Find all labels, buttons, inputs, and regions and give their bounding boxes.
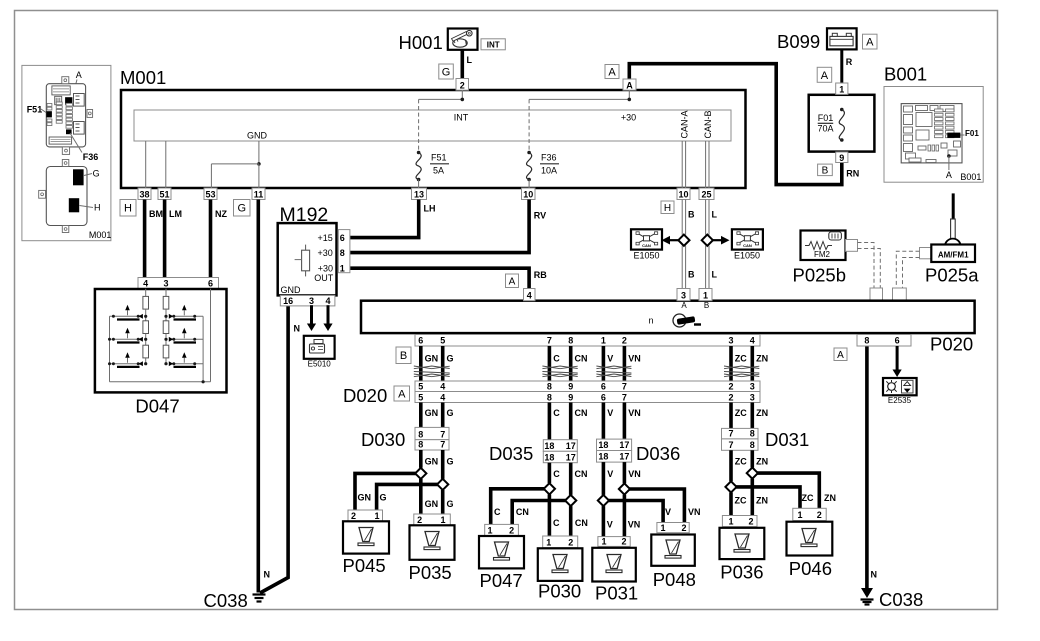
svg-text:ZN: ZN: [756, 354, 768, 364]
M001 internal node +30 from pin A: [529, 90, 636, 123]
svg-text:6: 6: [895, 336, 900, 346]
svg-text:3: 3: [163, 278, 168, 288]
svg-text:+30: +30: [318, 248, 333, 258]
svg-text:D036: D036: [636, 443, 680, 464]
svg-text:1: 1: [374, 511, 379, 521]
wire ZN junction to P036 pin 2: [752, 479, 768, 516]
F01 pin 9: [836, 152, 848, 163]
svg-text:AM/FM1: AM/FM1: [938, 250, 969, 259]
wire label B upper CAN-A: [688, 210, 695, 220]
svg-text:VN: VN: [628, 520, 641, 530]
svg-text:L: L: [712, 270, 718, 280]
svg-text:8: 8: [547, 393, 552, 403]
svg-text:ZC: ZC: [735, 496, 747, 506]
svg-text:P047: P047: [480, 570, 523, 591]
arrow to left E1050: [662, 236, 679, 245]
svg-text:A: A: [626, 81, 633, 91]
svg-text:B: B: [704, 301, 709, 310]
svg-text:A: A: [76, 70, 82, 80]
connector D035: [489, 440, 577, 464]
fusebox M001 inset illustration: [22, 65, 112, 240]
svg-text:B001: B001: [960, 172, 981, 182]
fuse F51 5A inside M001: [416, 99, 449, 188]
svg-text:1: 1: [440, 515, 445, 525]
ground C038 left: [204, 590, 266, 611]
node D047 connector strip: [138, 278, 219, 289]
svg-text:10: 10: [523, 190, 533, 200]
svg-text:4: 4: [143, 278, 148, 288]
svg-text:V: V: [607, 520, 613, 530]
connector D030: [361, 427, 449, 450]
M001 internal bus box: [134, 110, 731, 141]
svg-text:9: 9: [568, 382, 573, 392]
wire fuse F01 pin 9 to M001 pin A (RN): [629, 64, 842, 185]
connector stub of P025b: [846, 240, 858, 252]
svg-text:VN: VN: [628, 469, 641, 479]
wire C D035 to junction: [549, 463, 560, 484]
wire M001 pin38 to D047 pin4 (BM): [143, 200, 147, 278]
svg-text:F01: F01: [965, 129, 979, 138]
branch wire GN to P045 pin 2: [355, 473, 421, 510]
svg-text:2: 2: [622, 336, 627, 346]
connector stub on P020 for P025a: [893, 288, 907, 301]
connector stub on P020 for P025b: [870, 288, 883, 301]
svg-text:GN: GN: [358, 493, 372, 503]
svg-text:A: A: [398, 388, 406, 400]
svg-text:B001: B001: [884, 63, 927, 84]
junction diamond CN: [565, 495, 576, 506]
svg-text:P036: P036: [720, 562, 763, 583]
connector label A at P020 pin 4: [506, 274, 519, 288]
wire labels GN G at P045: [358, 493, 387, 503]
svg-text:2: 2: [728, 382, 733, 392]
svg-text:RN: RN: [846, 169, 859, 179]
svg-text:GN: GN: [425, 408, 439, 418]
branch wire CN to P047 pin 2: [512, 501, 571, 525]
svg-text:N: N: [264, 570, 271, 580]
M001 internal node INT from pin 2: [419, 90, 469, 123]
svg-text:1: 1: [340, 263, 345, 273]
svg-text:H: H: [664, 203, 671, 214]
svg-text:53: 53: [205, 190, 215, 200]
M001 internal wire to pin 38: [145, 141, 147, 188]
svg-text:GND: GND: [247, 131, 268, 141]
wire M001 pin10 to M192 pin8 (RV): [350, 200, 547, 253]
junction diamond GN: [415, 468, 426, 479]
connector D036: [597, 439, 681, 464]
node E1050 right: [732, 229, 763, 260]
svg-text:P025a: P025a: [925, 264, 979, 285]
svg-text:1: 1: [546, 537, 551, 547]
connector label B left of speaker strip: [396, 347, 411, 364]
junction diamond CAN-B: [702, 235, 713, 246]
fuse F01 70A node box: [809, 95, 875, 152]
M192 pin 4: [325, 296, 330, 306]
svg-text:4: 4: [440, 393, 445, 403]
P020 speaker-output pin strip 6 5 7 8 1 2 3 4: [415, 335, 760, 347]
wire pair C/CN D020 to D035: [549, 403, 587, 440]
svg-text:A: A: [681, 301, 687, 310]
svg-text:RB: RB: [534, 270, 547, 280]
svg-text:M001: M001: [89, 230, 112, 240]
svg-text:H001: H001: [399, 32, 443, 53]
arrow M192 pin4 to E5010: [323, 305, 332, 331]
svg-text:2: 2: [748, 517, 753, 527]
connector D031: [722, 428, 810, 450]
wire GN D030 to junction: [421, 450, 438, 468]
svg-text:9: 9: [839, 153, 844, 163]
wire labels ZC ZN at P046: [802, 493, 837, 503]
svg-text:L: L: [467, 55, 473, 65]
svg-text:7: 7: [728, 440, 733, 450]
wire pair ZC/ZN D020 to D031: [731, 403, 768, 429]
connector D020 row B: [415, 392, 760, 403]
svg-text:7: 7: [622, 393, 627, 403]
svg-text:GN: GN: [425, 354, 439, 364]
svg-text:R: R: [846, 57, 853, 67]
svg-text:A: A: [608, 66, 616, 78]
svg-text:1: 1: [487, 526, 492, 536]
svg-text:E2535: E2535: [888, 396, 912, 405]
svg-text:2: 2: [509, 526, 514, 536]
P020 pin 1 CAN-B: [699, 289, 712, 311]
wire G junction to P035 pin 1: [443, 490, 454, 514]
svg-text:4: 4: [325, 296, 330, 306]
svg-text:A: A: [866, 37, 874, 49]
svg-text:+30: +30: [318, 263, 333, 273]
svg-text:C: C: [553, 518, 560, 528]
svg-text:10: 10: [678, 190, 688, 200]
svg-text:H: H: [94, 203, 101, 213]
svg-text:OUT: OUT: [314, 273, 334, 283]
svg-text:A: A: [837, 350, 844, 361]
svg-text:P025b: P025b: [793, 264, 847, 285]
fuse F36 10A inside M001: [527, 99, 559, 188]
svg-text:C038: C038: [204, 590, 248, 611]
svg-text:3: 3: [681, 290, 686, 300]
svg-text:CN: CN: [575, 518, 588, 528]
branch wire V to P048 pin 1: [603, 501, 663, 523]
coax dashed link P025a to P020: [896, 251, 919, 288]
svg-text:C: C: [553, 469, 560, 479]
svg-text:C: C: [553, 354, 560, 364]
loudspeaker P031: [592, 537, 638, 604]
svg-text:17: 17: [619, 440, 629, 450]
svg-text:11: 11: [254, 190, 264, 200]
svg-text:ZN: ZN: [756, 457, 768, 467]
M001 pin 10 at x=521.5: [522, 188, 536, 200]
net CAN-B M001 pin25 to P020 pin 1: [706, 200, 709, 289]
svg-text:LH: LH: [424, 204, 436, 214]
svg-text:7: 7: [728, 429, 733, 439]
svg-text:3: 3: [309, 296, 314, 306]
svg-text:8: 8: [568, 336, 573, 346]
svg-text:CAN-A: CAN-A: [680, 110, 690, 138]
aerial amplifier FM2 P025b: [793, 231, 847, 286]
svg-text:D030: D030: [361, 429, 405, 450]
svg-text:1: 1: [797, 510, 802, 520]
svg-text:P030: P030: [538, 581, 581, 602]
svg-text:B: B: [400, 350, 407, 362]
svg-text:C: C: [494, 507, 501, 517]
svg-text:51: 51: [159, 190, 169, 200]
junction diamond ZC: [725, 481, 736, 492]
net CAN-B inside M001: [703, 110, 713, 188]
connector label G at M001 pin 2: [439, 64, 454, 79]
svg-text:V: V: [607, 354, 613, 364]
svg-text:1: 1: [660, 523, 665, 533]
wire battery B099 to fuse F01 pin 1 (R): [840, 49, 843, 83]
wire G D030 to junction: [443, 450, 454, 479]
svg-text:F51: F51: [431, 153, 447, 163]
wire labels BM LM NZ at M001 pins: [149, 209, 227, 219]
wire label L lower CAN-B: [712, 270, 718, 280]
junction diamond VN: [619, 483, 630, 494]
svg-text:F36: F36: [83, 152, 99, 162]
P020 pin 4: [524, 289, 536, 301]
svg-text:GN: GN: [425, 457, 439, 467]
svg-text:D031: D031: [765, 429, 809, 450]
svg-text:4: 4: [750, 336, 755, 346]
P020 microphone n symbol: [648, 314, 701, 327]
svg-text:CAN: CAN: [743, 243, 752, 248]
svg-text:6: 6: [418, 336, 423, 346]
wire pair V/VN P020 to D020: [596, 346, 640, 381]
wire pair C/CN P020 to D020: [542, 346, 587, 381]
svg-text:V: V: [607, 469, 613, 479]
svg-text:+15: +15: [318, 233, 333, 243]
svg-text:ZC: ZC: [735, 408, 747, 418]
svg-text:5: 5: [440, 336, 445, 346]
M001 pin 11 at x=252: [252, 188, 265, 200]
svg-text:LM: LM: [169, 209, 182, 219]
arrow M192 pin3 to E5010: [307, 305, 316, 331]
svg-text:38: 38: [139, 190, 149, 200]
M001 pin 53 at x=204: [204, 188, 217, 200]
svg-text:7: 7: [440, 429, 445, 439]
loudspeaker P047: [479, 524, 524, 591]
svg-text:6: 6: [208, 278, 213, 288]
svg-text:G: G: [447, 354, 454, 364]
svg-text:D035: D035: [489, 443, 533, 464]
M192 bottom pin strip: [280, 295, 335, 306]
svg-text:CN: CN: [516, 507, 529, 517]
M001 pin 38 at x=138: [138, 188, 151, 200]
svg-text:8: 8: [340, 248, 345, 258]
wire M192 pin1 to P020 pin4 (RB): [350, 268, 548, 288]
battery B099: [777, 28, 857, 52]
junction diamond G: [437, 479, 448, 490]
connector label H on CAN wires: [661, 201, 674, 214]
svg-text:G: G: [442, 66, 451, 78]
node E5010: [304, 336, 335, 369]
connector label A right of B099: [863, 34, 878, 49]
svg-text:7: 7: [622, 382, 627, 392]
fusebox B001 inset illustration: [884, 63, 983, 182]
svg-text:8: 8: [418, 440, 423, 450]
wire M001 pin53 to D047 pin6 (NZ): [209, 200, 213, 278]
svg-text:P048: P048: [653, 569, 696, 590]
connector label G below M001 pin 11: [234, 200, 251, 217]
wire label L on H001 wire: [467, 55, 473, 65]
wire CN D035 to junction: [571, 463, 588, 495]
wire V D036 to junction: [603, 462, 613, 495]
branch wire ZN to P046 pin 2: [752, 473, 819, 508]
label D020: [343, 385, 387, 406]
svg-text:INT: INT: [487, 41, 500, 50]
wire P020 pin8 to ground C038 (N): [867, 346, 877, 588]
wire label L upper CAN-B: [712, 210, 718, 220]
connector stub of P025a: [920, 248, 932, 259]
wire C junction to P030 pin 1: [549, 494, 560, 536]
svg-text:INT: INT: [454, 113, 469, 123]
P020 pin 3 CAN-A: [677, 289, 690, 311]
relay M192 box: [278, 204, 337, 295]
svg-text:A: A: [509, 276, 516, 287]
svg-text:H: H: [124, 203, 132, 215]
svg-text:5A: 5A: [433, 166, 444, 176]
wire ZC junction to P036 pin 1: [731, 493, 747, 516]
wire label R on battery wire: [846, 57, 853, 67]
wire VN junction to P031 pin 2: [624, 495, 640, 537]
svg-text:F51: F51: [27, 104, 43, 114]
svg-text:3: 3: [728, 336, 733, 346]
svg-text:5: 5: [418, 393, 423, 403]
svg-text:2: 2: [351, 511, 356, 521]
svg-text:18: 18: [598, 440, 608, 450]
svg-text:P045: P045: [343, 555, 386, 576]
wire V junction to P031 pin 1: [603, 506, 612, 536]
svg-text:70A: 70A: [817, 124, 833, 134]
wire M192 pin16 to ground C038 (N): [260, 305, 300, 593]
M001 pin 25 at x=699: [699, 188, 714, 200]
svg-text:F01: F01: [818, 113, 834, 123]
junction diamond CAN-A: [678, 235, 689, 246]
svg-text:E1050: E1050: [633, 251, 659, 261]
connector label A above F01: [817, 67, 832, 82]
svg-text:13: 13: [414, 190, 424, 200]
svg-text:BM: BM: [149, 209, 163, 219]
svg-text:V: V: [665, 507, 671, 517]
svg-text:D047: D047: [135, 396, 179, 417]
arrow to right E1050: [713, 236, 730, 245]
M192 pin 6: [340, 233, 345, 243]
keypad D047 box with switch matrix: [95, 289, 227, 417]
svg-text:7: 7: [547, 336, 552, 346]
antenna mast of P025a: [945, 193, 961, 254]
aerial AM/FM1 P025a: [925, 245, 979, 286]
svg-text:+30: +30: [621, 113, 636, 123]
svg-text:ZC: ZC: [802, 493, 814, 503]
node E2535 lighting: [883, 378, 917, 405]
svg-text:E1050: E1050: [734, 251, 760, 261]
svg-text:ZN: ZN: [756, 496, 768, 506]
svg-text:V: V: [607, 408, 613, 418]
svg-text:CN: CN: [575, 354, 588, 364]
svg-text:1: 1: [703, 290, 708, 300]
branch wire ZC to P046 pin 1: [731, 487, 800, 508]
M001 internal GND node: [211, 131, 267, 189]
connector label A at M001 pin A: [605, 65, 619, 79]
branch wire G to P045 pin 1: [377, 484, 443, 510]
connector label A at D020: [394, 386, 410, 401]
radio P020 box: [361, 301, 975, 355]
svg-text:4: 4: [440, 382, 445, 392]
svg-text:CAN-B: CAN-B: [703, 110, 713, 138]
svg-text:25: 25: [701, 190, 711, 200]
M001 pin 51 at x=158: [158, 188, 171, 200]
svg-text:B: B: [688, 270, 695, 280]
junction diamond V: [598, 495, 609, 506]
svg-text:ZN: ZN: [824, 493, 836, 503]
svg-text:2: 2: [817, 510, 822, 520]
svg-text:B: B: [688, 210, 695, 220]
svg-text:17: 17: [619, 452, 629, 462]
svg-text:2: 2: [728, 393, 733, 403]
svg-text:2: 2: [568, 537, 573, 547]
svg-text:17: 17: [566, 441, 576, 451]
svg-text:1: 1: [601, 537, 606, 547]
wire ZC D031 to junction: [731, 450, 747, 481]
svg-text:18: 18: [544, 452, 554, 462]
F01 pin 1: [836, 83, 848, 95]
wire GN junction to P035 pin 2: [421, 479, 438, 514]
svg-text:17: 17: [566, 452, 576, 462]
svg-text:GN: GN: [425, 499, 439, 509]
wire pair ZC/ZN P020 to D020: [724, 346, 768, 381]
svg-text:VN: VN: [628, 408, 641, 418]
svg-text:G: G: [93, 168, 100, 178]
svg-text:8: 8: [418, 429, 423, 439]
svg-text:B: B: [822, 165, 829, 176]
svg-text:E5010: E5010: [308, 360, 332, 369]
M192 right pin strip: [338, 230, 350, 273]
branch wire VN to P048 pin 2: [624, 489, 684, 523]
svg-text:N: N: [294, 324, 301, 334]
svg-text:VN: VN: [628, 354, 641, 364]
loudspeaker P048: [651, 523, 696, 591]
junction diamond C: [544, 483, 555, 494]
loudspeaker P035: [409, 514, 455, 583]
svg-text:8: 8: [547, 382, 552, 392]
wire label RN: [846, 169, 859, 179]
svg-text:1: 1: [839, 85, 844, 95]
loudspeaker P045: [343, 510, 390, 576]
svg-text:18: 18: [544, 441, 554, 451]
svg-text:3: 3: [750, 382, 755, 392]
svg-text:P020: P020: [930, 334, 973, 355]
svg-text:FM2: FM2: [814, 250, 831, 259]
M001 pin 10 at x=677: [677, 188, 690, 200]
net CAN-A M001 pin10 to P020 pin 3: [682, 200, 685, 289]
arrow P020 pin6 to E2535: [893, 346, 902, 377]
wire labels C CN at P047: [494, 507, 529, 517]
M001 pin 2: [456, 79, 469, 91]
svg-text:8: 8: [750, 440, 755, 450]
svg-text:G: G: [237, 203, 246, 215]
junction diamond ZN: [747, 468, 758, 479]
svg-text:CN: CN: [575, 408, 588, 418]
M192 pin 3: [309, 296, 314, 306]
wire CN junction to P030 pin 2: [571, 506, 588, 536]
node E1050 left: [631, 229, 662, 260]
label INT box at H001: [481, 39, 505, 50]
svg-text:3: 3: [750, 393, 755, 403]
ECU M001 box: [120, 67, 746, 188]
svg-text:n: n: [648, 316, 653, 326]
wire M001 pin13 to M192 pin6 (LH): [350, 200, 436, 238]
M001 pin 13 at x=411.5: [412, 188, 427, 200]
